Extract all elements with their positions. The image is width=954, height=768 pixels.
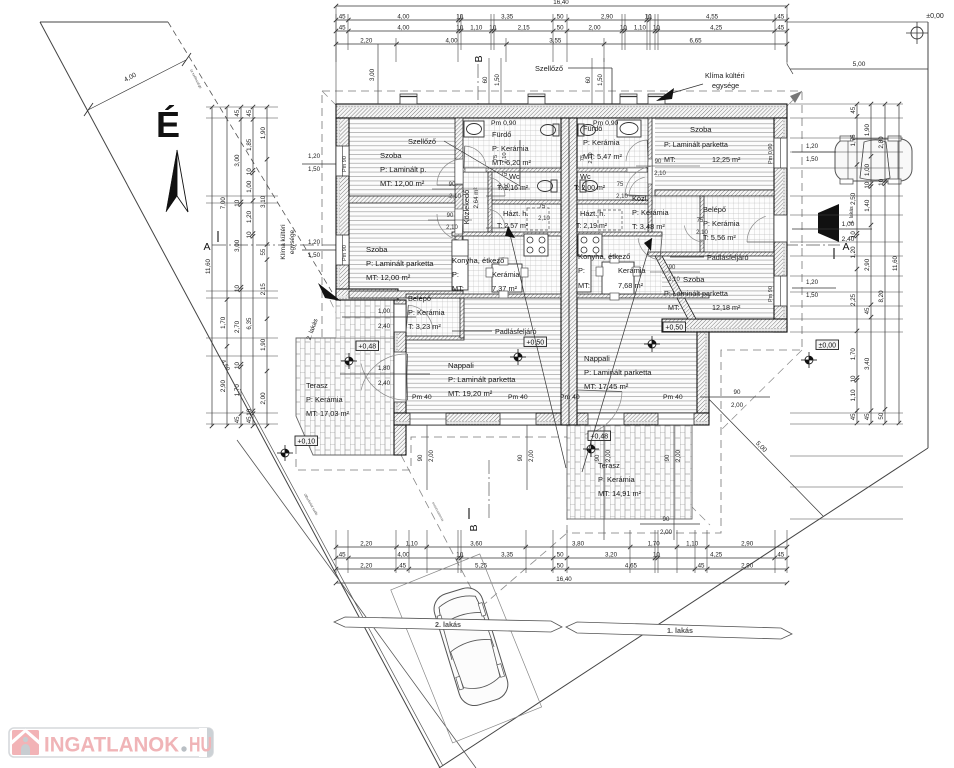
survey point marker — [801, 352, 817, 368]
room wc left floor — [492, 172, 561, 200]
svg-text:Pm 0,90: Pm 0,90 — [768, 144, 774, 164]
dim chain left row4 — [252, 107, 254, 426]
door swing furdo right — [626, 140, 647, 161]
svg-text:MT: 14,91 m²: MT: 14,91 m² — [598, 489, 642, 498]
svg-text:+0,48: +0,48 — [358, 344, 376, 351]
svg-text:2,20: 2,20 — [360, 38, 373, 45]
dim chain right row1 — [856, 104, 858, 423]
interior wall szoba2R top — [648, 252, 774, 256]
svg-text:4,00: 4,00 — [397, 552, 410, 559]
svg-text:T: 2,19 m²: T: 2,19 m² — [576, 223, 608, 230]
svg-text:2,40: 2,40 — [378, 380, 391, 387]
svg-text:45: 45 — [850, 106, 857, 113]
svg-text:10: 10 — [878, 178, 885, 185]
roof hip diagonal right lower — [580, 395, 710, 525]
svg-text:45: 45 — [777, 25, 784, 32]
svg-text:60: 60 — [586, 76, 592, 83]
interior wall belepo east left — [460, 298, 464, 338]
left door dims 1,80 2,40 — [340, 373, 430, 375]
interior wall hazt bottom left — [452, 232, 561, 236]
dim 1,00 2,40 right entry — [792, 228, 872, 230]
room konyha right floor — [577, 236, 662, 294]
svg-text:45: 45 — [777, 14, 784, 21]
svg-text:4,00: 4,00 — [397, 25, 410, 32]
svg-text:45: 45 — [777, 552, 784, 559]
svg-text:1,75: 1,75 — [850, 134, 857, 147]
svg-text:45: 45 — [864, 413, 871, 420]
svg-text:1,50: 1,50 — [806, 292, 819, 299]
svg-text:1,10: 1,10 — [686, 541, 699, 548]
svg-text:1,00: 1,00 — [864, 163, 871, 176]
interior wall belepo-nappali left — [406, 336, 464, 340]
roof hip diagonal left lower — [330, 300, 397, 440]
svg-text:Klíma kültéri: Klíma kültéri — [705, 71, 745, 80]
svg-text:1. lakás: 1. lakás — [667, 626, 693, 635]
extension lines left side — [206, 106, 278, 108]
svg-text:90: 90 — [665, 454, 671, 461]
svg-text:MT:: MT: — [668, 303, 680, 312]
svg-text:Kerámia: Kerámia — [492, 270, 520, 279]
svg-text:Nappali: Nappali — [448, 361, 474, 370]
svg-text:2,00: 2,00 — [260, 392, 267, 405]
boundary parallel double line — [240, 389, 443, 766]
svg-text:10: 10 — [456, 25, 463, 32]
svg-text:P: Kerámia: P: Kerámia — [306, 395, 343, 404]
svg-text:10: 10 — [246, 408, 253, 415]
elevation label +0,10 — [295, 436, 318, 446]
interior wall kozl-belepo right — [700, 196, 704, 256]
roof valley dashed right — [481, 533, 567, 607]
dim chain left row5 — [266, 107, 268, 426]
door swing szoba2 left — [437, 214, 462, 240]
left door dims 1,00 2,40 — [342, 316, 416, 318]
svg-text:90: 90 — [449, 182, 456, 188]
svg-text:1,50: 1,50 — [598, 74, 604, 86]
svg-text:Pm 40: Pm 40 — [560, 394, 580, 401]
svg-text:12,18 m²: 12,18 m² — [712, 303, 741, 312]
svg-text:2,90: 2,90 — [741, 563, 754, 570]
dim chain left row3 — [240, 107, 242, 426]
outer wall right — [783, 118, 787, 332]
plot boundary bottom-right diagonal — [439, 448, 928, 768]
room szoba2 left floor — [349, 203, 455, 291]
dim chain left row2 — [226, 107, 228, 426]
svg-text:45: 45 — [339, 25, 346, 32]
interior wall szoba2R chamfer — [655, 256, 696, 319]
svg-text:P: Laminált parketta: P: Laminált parketta — [584, 368, 652, 377]
svg-text:P: Laminált parketta: P: Laminált parketta — [448, 375, 516, 384]
svg-text:4,00: 4,00 — [397, 14, 410, 21]
interior wall furdo bottom right — [577, 168, 652, 172]
svg-text:Klíma kültéri: Klíma kültéri — [280, 224, 287, 259]
svg-text:Belépő: Belépő — [703, 205, 726, 214]
svg-text:Pm 90: Pm 90 — [768, 286, 774, 302]
room szoba1 right floor — [655, 118, 774, 190]
svg-text:1,90: 1,90 — [260, 127, 267, 140]
svg-text:1,00: 1,00 — [246, 180, 253, 193]
svg-text:Szoba: Szoba — [380, 151, 402, 160]
room furdo right floor — [577, 118, 648, 168]
dim chain top row3 — [336, 43, 787, 45]
svg-text:Pm 90: Pm 90 — [342, 156, 348, 172]
svg-text:Közlekedő: Közlekedő — [462, 190, 471, 225]
outer wall left — [336, 118, 340, 298]
svg-text:2,15: 2,15 — [518, 25, 531, 32]
bottom window dim marks left unit — [426, 425, 428, 490]
toilet furdo left — [541, 125, 556, 136]
svg-text:±0,00: ±0,00 — [926, 13, 944, 20]
top wall vents — [400, 94, 417, 104]
washing machine dashed left — [527, 208, 549, 230]
svg-text:Konyha, étkező: Konyha, étkező — [578, 252, 630, 261]
svg-text:45: 45 — [698, 563, 705, 570]
svg-text:1,50: 1,50 — [308, 252, 321, 259]
door gap szoba1 right — [651, 158, 653, 160]
svg-text:Házt. h.: Házt. h. — [580, 209, 605, 218]
interior wall konyha-nappali right — [577, 294, 709, 298]
svg-text:45: 45 — [234, 109, 241, 116]
svg-text:1,80: 1,80 — [378, 365, 391, 372]
roof hip diagonal right upper — [640, 91, 802, 253]
survey point marker — [341, 353, 357, 369]
right window dims 1,20 1,50 upper — [792, 151, 836, 153]
svg-text:10: 10 — [456, 552, 463, 559]
svg-text:55: 55 — [260, 248, 267, 255]
svg-text:4,65: 4,65 — [625, 563, 638, 570]
svg-text:50: 50 — [557, 14, 564, 21]
svg-text:MT:: MT: — [664, 155, 676, 164]
door swing hazt left — [489, 209, 505, 228]
bottom window dim marks right unit — [603, 425, 605, 540]
svg-text:2,00: 2,00 — [731, 402, 744, 409]
svg-text:Szoba: Szoba — [690, 125, 712, 134]
door swing nappali terrace left double — [361, 364, 408, 400]
svg-text:B: B — [468, 524, 480, 531]
door swing konyha right — [638, 238, 660, 260]
svg-text:50: 50 — [557, 563, 564, 570]
door gap belepo-kozl right — [700, 218, 704, 240]
entry door right wall belepo — [774, 215, 787, 242]
svg-text:2,70: 2,70 — [234, 320, 241, 333]
svg-text:Terasz: Terasz — [306, 381, 328, 390]
left window dims 1,20 1,50 lower — [302, 249, 336, 251]
svg-text:1,20: 1,20 — [308, 153, 321, 160]
svg-text:1,20: 1,20 — [806, 143, 819, 150]
svg-text:45: 45 — [339, 14, 346, 21]
svg-text:MT: 17,03 m²: MT: 17,03 m² — [306, 409, 350, 418]
svg-text:3,80: 3,80 — [572, 541, 585, 548]
svg-text:4,00: 4,00 — [445, 38, 458, 45]
svg-text:3,55: 3,55 — [549, 38, 562, 45]
interior wall furdo bottom left — [455, 168, 561, 172]
svg-text:1,50: 1,50 — [806, 156, 819, 163]
svg-text:3,20: 3,20 — [605, 552, 618, 559]
interior wall konyha-nappali left — [406, 294, 561, 298]
room furdo left floor — [463, 118, 561, 168]
svg-text:Wc: Wc — [580, 172, 591, 181]
svg-text:Fürdő: Fürdő — [492, 130, 511, 139]
svg-text:1,10: 1,10 — [470, 25, 483, 32]
svg-text:45: 45 — [246, 416, 253, 423]
plot boundary top edge — [40, 21, 168, 23]
svg-text:2,10: 2,10 — [538, 216, 550, 222]
svg-text:2,00: 2,00 — [660, 529, 673, 536]
interior wall corridor left — [455, 118, 463, 292]
door swing szoba1 left — [437, 159, 462, 185]
svg-text:2,10: 2,10 — [668, 277, 680, 283]
svg-text:45: 45 — [864, 307, 871, 314]
dim chain bottom total 16,40 — [336, 582, 787, 584]
belepo entry door left — [394, 304, 406, 332]
svg-text:1,20: 1,20 — [806, 279, 819, 286]
svg-text:10: 10 — [850, 231, 857, 238]
svg-text:1,85: 1,85 — [246, 138, 253, 151]
dim 5,00 top right — [790, 68, 928, 70]
entry walkway left brick — [336, 298, 396, 338]
svg-text:10: 10 — [489, 25, 496, 32]
svg-text:1,40: 1,40 — [864, 199, 871, 212]
outer wall top — [336, 104, 787, 108]
svg-text:Pm 0,90: Pm 0,90 — [593, 120, 619, 127]
dim 3,00 above left area — [377, 44, 379, 104]
door swing belepo right entry — [747, 216, 766, 242]
svg-text:T: 3,48 m²: T: 3,48 m² — [632, 222, 665, 231]
svg-text:2,15: 2,15 — [260, 283, 267, 296]
svg-text:2. lakás: 2. lakás — [435, 620, 461, 629]
svg-text:Belépő: Belépő — [408, 294, 431, 303]
svg-text:75: 75 — [501, 172, 508, 178]
svg-text:4,55: 4,55 — [706, 14, 719, 21]
svg-text:Padlásfeljáró: Padlásfeljáró — [495, 327, 537, 336]
svg-text:Pm 90: Pm 90 — [342, 245, 348, 261]
diagonal dim 5,00 lower right — [700, 390, 823, 516]
svg-text:10: 10 — [246, 168, 253, 175]
extension lines top rows — [347, 14, 349, 50]
svg-text:B: B — [473, 55, 485, 62]
outer wall bottom — [394, 421, 709, 425]
room hazt right floor — [577, 204, 648, 232]
svg-text:Házt. h.: Házt. h. — [503, 209, 528, 218]
door gap szoba1 left — [455, 159, 463, 184]
elevation label +0,50 — [524, 337, 547, 347]
roof hip diagonal right corner — [721, 350, 802, 430]
room wc right floor — [577, 172, 648, 200]
door swing wc right — [629, 177, 645, 196]
toilet wc left — [538, 181, 553, 192]
interior wall wc west left — [488, 172, 492, 232]
svg-text:75: 75 — [493, 155, 499, 161]
room nappali left floor — [406, 298, 561, 413]
kitchen counter left — [452, 240, 468, 290]
svg-text:2,00: 2,00 — [529, 450, 535, 462]
left window dims 1,20 1,50 upper — [302, 163, 336, 165]
hazt leader left — [508, 226, 566, 468]
interior wall szoba divider left — [349, 196, 455, 203]
survey point marker — [644, 336, 660, 352]
svg-text:2,90: 2,90 — [864, 258, 871, 271]
svg-text:10: 10 — [864, 181, 871, 188]
svg-text:10: 10 — [620, 25, 627, 32]
table right konyha — [602, 262, 634, 294]
svg-text:5,00: 5,00 — [853, 61, 866, 68]
svg-text:P: Kerámia: P: Kerámia — [703, 219, 740, 228]
svg-text:Szoba: Szoba — [366, 245, 388, 254]
svg-text:90: 90 — [418, 454, 424, 461]
room belepo left floor tile overlay — [406, 298, 464, 336]
svg-text:2,90: 2,90 — [220, 380, 227, 393]
extension lines right side — [790, 103, 903, 105]
car bottom top-view — [430, 584, 512, 710]
svg-text:10: 10 — [645, 14, 652, 21]
svg-text:2,10: 2,10 — [654, 171, 666, 177]
svg-text:MT:: MT: — [578, 281, 590, 290]
svg-text:16,40: 16,40 — [553, 0, 569, 6]
svg-text:2,00: 2,00 — [606, 450, 612, 462]
svg-text:1,20: 1,20 — [850, 246, 857, 259]
svg-text:2,10: 2,10 — [446, 225, 458, 231]
extension lines bottom rows — [335, 530, 337, 573]
room belepo right floor — [704, 196, 774, 256]
svg-text:90: 90 — [734, 389, 741, 396]
entry arrow left unit2 — [318, 283, 341, 301]
svg-text:45: 45 — [246, 109, 253, 116]
door swing wc left — [489, 177, 505, 196]
door swing belepo left — [408, 305, 433, 330]
svg-text:1,50: 1,50 — [495, 74, 501, 86]
vent dims 60 150 left unit — [488, 58, 490, 104]
entry arrow right unit1 — [818, 204, 839, 242]
dim chain right total 11,60 — [898, 104, 900, 423]
pavement edge dashed diagonal — [168, 22, 332, 292]
svg-text:T: 5,56 m²: T: 5,56 m² — [703, 233, 736, 242]
svg-text:1,00: 1,00 — [378, 308, 391, 315]
svg-text:T: 2,57 m²: T: 2,57 m² — [497, 223, 529, 230]
svg-text:75: 75 — [617, 182, 624, 188]
svg-text:50: 50 — [557, 25, 564, 32]
window right wall szoba1R — [774, 138, 787, 168]
interior wall szoba1R bottom — [655, 190, 774, 196]
outer wall nappali-right east — [705, 332, 709, 413]
door swing furdo left — [465, 146, 486, 165]
window left wall szoba1 — [336, 146, 349, 176]
bottom wall window gaps — [410, 413, 446, 425]
dim chain bottom row3 — [336, 568, 787, 570]
banner 2. lakas — [334, 617, 562, 632]
roof hip diagonal left long — [322, 91, 560, 330]
svg-text:P: Laminált parketta: P: Laminált parketta — [366, 259, 434, 268]
svg-text:45: 45 — [339, 552, 346, 559]
table left konyha — [492, 264, 522, 292]
dim chain bottom row2 — [336, 557, 787, 559]
stove left konyha — [524, 234, 548, 256]
svg-text:Wc: Wc — [509, 172, 520, 181]
svg-text:10: 10 — [653, 552, 660, 559]
dim chain left total 11,60 — [211, 107, 213, 426]
plot boundary left edge — [40, 22, 440, 768]
room szoba1 left floor — [349, 118, 455, 196]
svg-text:Közl.: Közl. — [632, 194, 648, 203]
door swing kozl-belepo right — [684, 226, 704, 243]
interior wall wc bottom right — [577, 200, 652, 204]
svg-text:2,40: 2,40 — [378, 323, 391, 330]
svg-text:P:: P: — [452, 270, 459, 279]
hazt leader right — [582, 238, 652, 472]
window left wall szoba2 — [336, 235, 349, 265]
svg-text:2,10: 2,10 — [696, 230, 708, 236]
dim chain top total 16,40 — [336, 5, 787, 7]
interior wall szoba2L bottom — [349, 291, 463, 298]
svg-text:11,60: 11,60 — [892, 255, 899, 271]
road edge second diagonal bottom left — [237, 440, 476, 768]
svg-text:90: 90 — [595, 454, 601, 461]
terrace right floor brick — [567, 425, 692, 519]
svg-text:1,70: 1,70 — [234, 384, 241, 397]
middle separating wall — [561, 118, 577, 425]
svg-text:2,00: 2,00 — [588, 25, 601, 32]
dim chain top row1 — [336, 19, 787, 21]
svg-text:2,10: 2,10 — [502, 152, 508, 163]
svg-text:90: 90 — [655, 159, 662, 165]
svg-text:75: 75 — [580, 155, 586, 161]
terrace left floor brick — [296, 338, 397, 455]
svg-text:2,20: 2,20 — [360, 563, 373, 570]
svg-text:Pm 40: Pm 40 — [412, 394, 432, 401]
svg-text:2,64 m²: 2,64 m² — [473, 188, 480, 209]
room konyha left floor — [452, 236, 561, 294]
room szoba2 right floor chamfered — [662, 256, 774, 319]
svg-text:50: 50 — [557, 552, 564, 559]
svg-text:10: 10 — [456, 14, 463, 21]
svg-text:P: Kerámia: P: Kerámia — [632, 208, 669, 217]
dim chain bottom row1 — [336, 546, 787, 548]
wall stub terrace corner left — [394, 425, 406, 455]
svg-text:1,70: 1,70 — [648, 541, 661, 548]
svg-text:1,20: 1,20 — [246, 210, 253, 223]
svg-text:Pm 40: Pm 40 — [663, 394, 683, 401]
toilet wc right — [583, 181, 598, 192]
svg-text:egysége: egysége — [712, 81, 739, 90]
svg-text:11,60: 11,60 — [205, 258, 212, 274]
svg-text:INGATLANOK: INGATLANOK — [44, 733, 179, 757]
dim chain right row2 — [870, 104, 872, 423]
svg-text:4,25: 4,25 — [710, 552, 723, 559]
dim chain top row2 — [336, 30, 787, 32]
north arrow — [166, 150, 177, 212]
boundary dim 4,00 with ticks — [88, 60, 186, 110]
svg-text:60: 60 — [483, 76, 489, 83]
svg-text:T: 3,23 m²: T: 3,23 m² — [408, 322, 441, 331]
terrace door nappali right — [480, 412, 482, 414]
room belepo left floor — [406, 298, 464, 338]
svg-text:2,90: 2,90 — [741, 541, 754, 548]
svg-text:7,68 m²: 7,68 m² — [618, 281, 644, 290]
svg-text:1,10: 1,10 — [406, 541, 419, 548]
svg-text:Szoba: Szoba — [683, 275, 705, 284]
svg-text:P: Kerámia: P: Kerámia — [408, 308, 445, 317]
svg-text:2,90: 2,90 — [601, 14, 614, 21]
svg-text:A: A — [203, 241, 210, 253]
vent dims 60 150 right unit — [591, 58, 593, 104]
svg-text:75: 75 — [697, 218, 704, 224]
svg-text:3,60: 3,60 — [470, 541, 483, 548]
svg-text:Szellőző: Szellőző — [408, 137, 436, 146]
svg-text:2,20: 2,20 — [360, 541, 373, 548]
svg-text:MT: 12,00 m²: MT: 12,00 m² — [380, 179, 425, 188]
svg-text:1,70: 1,70 — [850, 348, 857, 361]
sink furdo right — [617, 120, 641, 137]
toilet furdo right — [581, 125, 596, 136]
plot boundary right edge vertical — [927, 22, 929, 448]
